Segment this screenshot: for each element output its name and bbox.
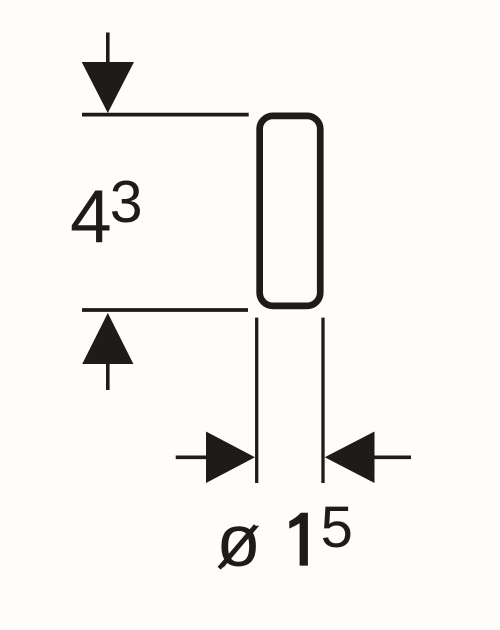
left extension line bbox=[255, 318, 258, 483]
pill outline (product profile) bbox=[260, 116, 321, 306]
dimension text 1 (custom glyph, no foot serif) bbox=[289, 513, 308, 566]
svg-text:ø: ø bbox=[216, 501, 261, 582]
top dimension arrow tail bbox=[106, 33, 110, 65]
left-pointing arrow tail bbox=[372, 455, 411, 459]
top dimension line bbox=[82, 113, 249, 117]
bottom dimension arrow tail bbox=[106, 362, 110, 390]
right-pointing arrowhead bbox=[206, 432, 255, 484]
bottom dimension arrowhead (up) bbox=[82, 313, 133, 364]
right-pointing arrow tail bbox=[176, 455, 208, 459]
left-pointing arrowhead bbox=[325, 432, 375, 484]
right extension line bbox=[321, 318, 324, 483]
svg-text:3: 3 bbox=[110, 169, 143, 235]
bottom dimension line bbox=[82, 308, 248, 312]
top dimension arrowhead (down) bbox=[82, 62, 134, 113]
diameter symbol slash extension bbox=[219, 526, 255, 569]
svg-text:5: 5 bbox=[321, 495, 353, 560]
svg-text:4: 4 bbox=[70, 174, 112, 258]
